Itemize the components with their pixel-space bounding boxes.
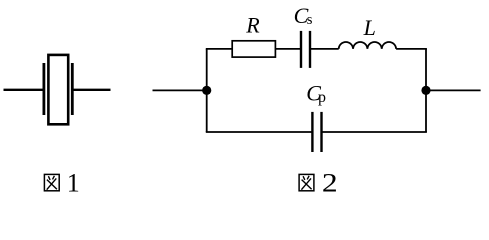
figure 2: right lead wire (426, 89, 481, 91)
crystal (quartz resonator) body rectangle (48, 55, 68, 124)
capacitor Cs right plate (309, 31, 311, 68)
svg-text:1: 1 (67, 169, 80, 196)
caption figure 2: kanji ZU (figure) drawn as paths (299, 174, 314, 190)
figure 1: left lead wire (4, 89, 44, 91)
svg-text:L: L (363, 15, 376, 40)
wire: right vertical from top branch to bottom branch (425, 49, 427, 132)
capacitor Cs left plate (300, 31, 302, 68)
wire: bottom branch, capacitor Cp to right vertical (322, 131, 427, 133)
label Cp (306, 80, 326, 105)
wire: left vertical from top branch to bottom branch (206, 49, 208, 132)
figure 1: right lead wire (72, 89, 110, 91)
wire: bottom branch, left segment to capacitor Cp (206, 131, 313, 133)
label Cs (294, 3, 313, 28)
caption figure 1: kanji ZU (figure) drawn as paths (44, 174, 59, 190)
svg-text:p: p (318, 89, 326, 106)
capacitor Cp left plate (311, 112, 313, 152)
wire: resistor to capacitor Cs (275, 48, 301, 50)
crystal (quartz resonator) left electrode plate (43, 63, 46, 115)
wire: top branch, node to resistor (206, 48, 232, 50)
inductor L (339, 42, 396, 49)
node B (right junction dot) (421, 86, 430, 95)
node A (left junction dot) (202, 86, 211, 95)
capacitor Cp right plate (320, 112, 322, 152)
svg-text:s: s (307, 12, 313, 28)
svg-text:R: R (245, 13, 260, 38)
wire: inductor to right vertical (396, 48, 427, 50)
crystal (quartz resonator) right electrode plate (71, 63, 74, 115)
svg-text:2: 2 (322, 169, 338, 196)
wire: capacitor Cs to inductor L (310, 48, 339, 50)
resistor R (232, 41, 275, 57)
figure 2: left lead wire (153, 89, 207, 91)
